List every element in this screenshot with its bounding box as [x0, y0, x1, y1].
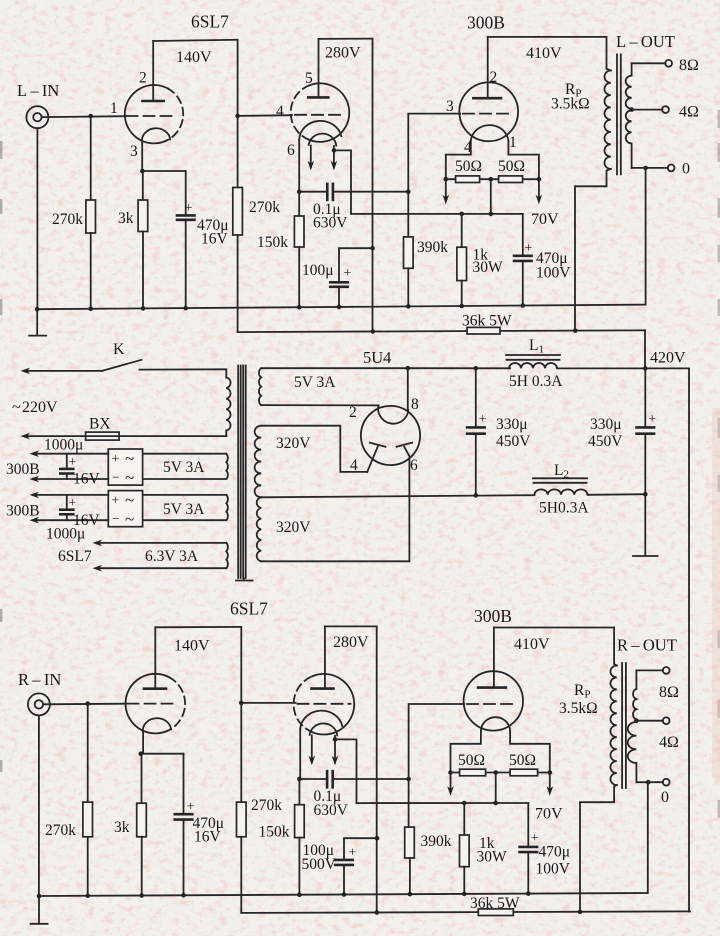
svg-text:2: 2	[349, 404, 357, 421]
node 300B grid node R	[406, 777, 411, 782]
svg-text:~: ~	[125, 491, 134, 510]
resistor R 270k plate-load R	[237, 802, 247, 837]
ground symbol R input	[38, 896, 40, 923]
svg-text:270k: 270k	[249, 199, 280, 216]
node 0 tap junction L	[643, 166, 648, 171]
wire cathode to bypass cap R	[141, 753, 184, 755]
wire 470u16V R to rail	[183, 820, 185, 896]
wire 70V node line L	[351, 213, 523, 215]
svg-text:3: 3	[446, 98, 454, 115]
svg-text:0: 0	[682, 161, 690, 178]
svg-text:L – OUT: L – OUT	[616, 32, 675, 51]
wire B2 minus output	[36, 519, 108, 521]
wire 100u to ground rail	[338, 287, 340, 307]
tube V1b grid (dashed)	[295, 114, 346, 116]
svg-text:5V 3A: 5V 3A	[163, 501, 205, 518]
wire cathode to bypass cap	[142, 170, 185, 172]
tube V1b 6SL7 L envelope	[309, 83, 349, 142]
svg-text:280V: 280V	[333, 634, 369, 651]
svg-text:3k: 3k	[118, 210, 134, 227]
ground symbol PSU	[644, 494, 646, 555]
svg-text:280V: 280V	[325, 45, 361, 62]
wire B+ rail after L1	[558, 367, 689, 369]
resistor R 270k grid L (wire)	[90, 116, 92, 200]
svg-text:+: +	[112, 493, 120, 508]
svg-text:4Ω: 4Ω	[679, 104, 699, 121]
svg-text:420V: 420V	[650, 350, 686, 367]
wire 0 tap L	[632, 167, 668, 169]
svg-text:5H 0.3A: 5H 0.3A	[509, 373, 563, 390]
node input junction	[88, 114, 93, 119]
wire 140V top rail R	[155, 626, 241, 628]
svg-text:8Ω: 8Ω	[659, 684, 679, 701]
transformer T-OPT-L core	[616, 54, 618, 174]
wire 3k to ground rail	[142, 232, 144, 309]
wire 270k to ground rail	[90, 233, 92, 309]
node 1k top R	[462, 801, 467, 806]
svg-text:−: −	[112, 470, 120, 485]
capacitor C 470u16V R plates	[175, 813, 193, 816]
svg-text:+: +	[479, 412, 487, 427]
svg-text:450V: 450V	[496, 433, 531, 450]
node 4ohm tap R	[634, 718, 639, 723]
tube 5U4 anode pin4	[367, 447, 378, 472]
svg-text:0: 0	[661, 789, 669, 806]
wire filament supply arrow left L	[445, 179, 447, 200]
svg-text:100V: 100V	[536, 861, 571, 878]
node 300B grid node L	[406, 189, 411, 194]
svg-text:R – IN: R – IN	[18, 670, 61, 689]
wire 3k R to rail	[141, 837, 143, 896]
svg-text:+: +	[648, 412, 656, 427]
transformer T-OPT-L secondary upper	[631, 63, 633, 75]
svg-text:70V: 70V	[535, 806, 563, 823]
capacitor C 100u L plates	[330, 281, 348, 284]
tube 300B R grid (dashed)	[467, 703, 517, 705]
node 1k top L	[459, 212, 464, 217]
node 280V at 36k line L	[371, 329, 376, 334]
wire 300B L filament left leg	[446, 141, 471, 179]
wire 36k line L	[238, 330, 645, 332]
capacitor C 330u-1 (wires)	[475, 368, 477, 427]
terminal 0 L	[668, 165, 675, 172]
svg-text:1: 1	[509, 134, 517, 151]
wire 470u100V R to rail	[527, 852, 529, 893]
resistor R 50ohm right R	[510, 769, 537, 776]
wire 300B anode to OPT primary L	[488, 36, 607, 38]
wire 470u100V to ground rail	[522, 261, 524, 306]
wire 4ohm tap L	[632, 109, 663, 111]
resistor R 50ohm left R	[460, 769, 486, 776]
wire secondary 0 to ground rail R	[647, 782, 649, 893]
node 50ohm center L	[489, 177, 494, 182]
fuse BX	[86, 432, 120, 440]
svg-text:330μ: 330μ	[590, 416, 622, 433]
resistor R 3k cathode R	[137, 803, 147, 837]
wire mains line 1 to primary	[140, 368, 227, 370]
wire 70V node line R	[357, 802, 529, 804]
svg-text:4: 4	[276, 103, 284, 120]
resistor R 50ohm left L	[456, 176, 480, 183]
tube V1a 6SL7 L envelope	[125, 85, 168, 143]
transformer T-PWR primary 220V	[225, 371, 227, 378]
tube V2a anode plate	[144, 687, 166, 690]
node 0 tap junction R	[646, 780, 651, 785]
wire cathode node to coupling cap R	[299, 778, 327, 780]
node 330u-1 top	[474, 366, 479, 371]
resistor R 390k R (wire)	[408, 779, 410, 827]
svg-text:390k: 390k	[417, 239, 448, 256]
wire 280V box top R	[325, 625, 377, 627]
wire 300B R filament right leg	[510, 731, 550, 772]
svg-text:270k: 270k	[251, 797, 282, 814]
svg-text:470μ: 470μ	[539, 844, 571, 861]
node 50ohm line left L	[444, 177, 449, 182]
wire V2a cathode lead	[142, 731, 144, 754]
bridge rectifier B2 box	[108, 491, 142, 527]
resistor R 150k R	[295, 805, 305, 838]
wire coupling cap to 300B grid node	[333, 191, 408, 193]
tube 5U4 envelope	[361, 406, 420, 465]
wire 270k grid R to rail	[87, 837, 89, 896]
wire 4ohm tap R	[636, 720, 663, 722]
svg-text:630V: 630V	[313, 215, 348, 232]
choke L2 coil	[535, 489, 588, 494]
resistor R 1k30W R (wire)	[463, 803, 465, 835]
wire 50ohm hum line L	[446, 178, 539, 180]
node ground rail left end R	[37, 894, 42, 899]
wire B2 plus output	[36, 494, 108, 496]
svg-text:+: +	[187, 800, 195, 815]
capacitor C 470u16V L plates	[177, 214, 195, 217]
resistor R 270k grid R	[83, 802, 93, 837]
ground symbol transformer core	[243, 578, 245, 580]
wire 390k to ground rail	[407, 268, 409, 306]
wire 300B grid riser L	[408, 114, 460, 192]
wire cathode node to coupling cap	[299, 191, 327, 193]
svg-text:~ 220V: ~ 220V	[12, 399, 58, 416]
svg-text:300B: 300B	[467, 13, 505, 33]
capacitor C 0.1u630V L plates	[326, 184, 329, 200]
tube V2a 6SL7 R envelope	[125, 674, 169, 734]
svg-text:320V: 320V	[276, 435, 311, 452]
wire 280V supply vertical L	[372, 39, 374, 332]
wire 270k plate-load R to 280V line	[240, 837, 242, 913]
svg-text:6SL7: 6SL7	[58, 548, 92, 565]
tube 300B L filament arc	[471, 125, 509, 141]
wire heater leg left V1b	[310, 146, 312, 168]
tube V2b heater arc	[310, 723, 338, 735]
wire 0 tap R	[636, 781, 663, 783]
svg-text:6SL7: 6SL7	[230, 599, 268, 619]
svg-text:3.5kΩ: 3.5kΩ	[559, 700, 598, 717]
wire coupling to V2 grid	[238, 114, 292, 117]
wire V2a anode lead	[154, 627, 156, 688]
node V2b cathode / coupling junction R	[297, 777, 302, 782]
node OPT-R primary return	[578, 910, 583, 915]
svg-text:5H0.3A: 5H0.3A	[539, 500, 589, 517]
resistor R 3k cathode L (wire up)	[142, 171, 144, 200]
wire jack ground drop R	[38, 715, 40, 896]
resistor R 270k grid R (wire)	[87, 704, 89, 803]
capacitor C 1000u16V b plates	[60, 508, 73, 511]
wire 280V box top L	[319, 38, 373, 40]
wire 300B L filament right leg	[508, 141, 539, 179]
node B+ takeoff at pin8	[406, 366, 411, 371]
resistor R 3k cathode L	[138, 200, 148, 232]
wire 1k R to rail	[463, 867, 465, 894]
svg-text:K: K	[113, 341, 125, 358]
tube V1b anode plate	[308, 96, 328, 99]
wire 420V down right edge	[688, 368, 690, 911]
wire 300B L anode lead	[487, 37, 489, 98]
wire 150k R to rail	[298, 838, 300, 895]
wire B+ rail from 5U4	[408, 367, 510, 369]
node V1a cathode junction	[140, 169, 145, 174]
bridge rectifier B1 box	[108, 449, 142, 485]
wire heater tap to 70V line	[334, 150, 351, 214]
svg-text:−: −	[112, 511, 120, 526]
wire mains line 2	[27, 435, 227, 437]
svg-text:320V: 320V	[276, 519, 311, 536]
node heater bias tap	[332, 148, 337, 153]
tube 5U4 anode pin6	[404, 447, 409, 562]
wire 50ohm center to 70V node	[490, 179, 492, 214]
svg-text:500V: 500V	[302, 856, 337, 873]
wire 280V supply vertical R	[376, 626, 378, 912]
resistor R 270k plate-load R (wire)	[240, 627, 242, 802]
node V1b cathode / coupling junction	[297, 189, 302, 194]
node 50ohm line left R	[448, 770, 453, 775]
svg-text:5V 3A: 5V 3A	[163, 459, 205, 476]
svg-text:6SL7: 6SL7	[191, 12, 229, 32]
capacitor C 470u100V R plates	[520, 846, 538, 849]
svg-text:6: 6	[287, 142, 295, 159]
capacitor C 1000u16V a plates	[60, 468, 73, 471]
node OPT-L primary return	[573, 328, 578, 333]
svg-text:16V: 16V	[194, 829, 222, 846]
capacitor C 330u-1 plates	[467, 426, 485, 429]
svg-text:5V 3A: 5V 3A	[294, 374, 336, 391]
svg-text:16V: 16V	[201, 231, 229, 248]
node 50ohm line right R	[548, 770, 553, 775]
svg-text:8Ω: 8Ω	[679, 57, 699, 74]
resistor R 270k plate-load L (wire from rail)	[237, 40, 239, 188]
capacitor C 1000u16V a (wires)	[66, 454, 68, 469]
wire B1 minus output	[36, 478, 108, 480]
winding 5V3A-a (left)	[143, 453, 227, 455]
resistor R 1k30W L (wire)	[461, 214, 463, 247]
wire heater leg right V2b	[334, 736, 336, 763]
ground rail R channel	[39, 893, 648, 896]
wire filament supply arrow right R	[549, 773, 551, 792]
svg-text:390k: 390k	[421, 833, 452, 850]
node V1a anode / V2 grid junction	[235, 114, 240, 119]
tube V2b 6SL7 R envelope	[313, 674, 355, 735]
wire heater leg left V2b	[311, 735, 313, 762]
wire mains line 1	[27, 370, 102, 372]
svg-text:450V: 450V	[588, 433, 623, 450]
tube 300B L anode plate	[473, 97, 501, 100]
svg-text:+: +	[69, 454, 77, 469]
svg-text:50Ω: 50Ω	[498, 158, 525, 175]
tube 5U4 filament arc	[378, 407, 408, 424]
resistor R 150k L	[294, 216, 304, 247]
wire PSU return rail right	[588, 493, 645, 496]
svg-text:6.3V 3A: 6.3V 3A	[145, 548, 199, 565]
node V2a cathode junction R	[139, 751, 144, 756]
wire 8ohm tap L	[632, 62, 666, 64]
wire 36k line R	[241, 911, 690, 913]
wire 300B R anode to OPT primary	[494, 627, 614, 629]
wire 1k to ground rail	[461, 281, 463, 306]
svg-text:1000μ: 1000μ	[46, 526, 85, 543]
svg-text:16V: 16V	[73, 471, 101, 488]
tube 300B R anode plate	[478, 686, 506, 689]
svg-text:150k: 150k	[259, 824, 290, 841]
wire 270k plate-load to 280V line	[237, 235, 239, 332]
winding 320V upper	[255, 426, 262, 498]
node 100u R at 280V line	[375, 836, 380, 841]
input jack R-IN	[28, 693, 50, 715]
svg-text:~: ~	[125, 468, 134, 487]
svg-text:~: ~	[125, 510, 134, 529]
tube 300B R envelope	[464, 671, 523, 730]
svg-text:+: +	[69, 495, 77, 510]
ground rail L channel	[37, 305, 645, 310]
svg-text:BX: BX	[89, 416, 111, 433]
node 50ohm center R	[493, 770, 498, 775]
svg-text:+: +	[349, 846, 357, 861]
svg-text:100V: 100V	[536, 265, 571, 282]
node V2a anode / V2b grid junction R	[239, 701, 244, 706]
wire heater leg right V1b	[333, 146, 335, 168]
wire V1a cathode lead	[141, 141, 143, 171]
capacitor C 470u100V L plates	[514, 255, 532, 258]
wire 150k to ground rail	[298, 247, 300, 307]
node 330u-2 bottom	[643, 492, 648, 497]
wire 100u R to rail	[343, 865, 345, 895]
svg-text:3k: 3k	[114, 819, 130, 836]
svg-text:410V: 410V	[514, 636, 550, 653]
wire 300B R anode lead	[493, 628, 495, 688]
wire 36k line to 420V corner L	[644, 330, 646, 368]
wire 300B R filament left leg	[451, 731, 481, 772]
wire secondary 0 to ground rail L	[645, 168, 647, 305]
capacitor C 470u16V L (top wire)	[185, 171, 187, 215]
resistor R 390k R	[405, 827, 415, 858]
resistor R 50ohm right L	[499, 176, 523, 183]
transformer T-OPT-L secondary lower	[626, 110, 632, 143]
capacitor C 100u R plates	[335, 859, 353, 862]
terminal 8ohm L	[665, 60, 672, 67]
svg-text:30W: 30W	[477, 849, 508, 866]
svg-text:100μ: 100μ	[302, 262, 334, 279]
node 330u-1 bottom	[474, 493, 479, 498]
wire 300B grid riser R	[409, 704, 465, 779]
svg-text:+: +	[525, 241, 533, 256]
wire heater tap to 70V line R	[335, 739, 357, 803]
svg-text:36k 5W: 36k 5W	[470, 895, 520, 912]
svg-text:R – OUT: R – OUT	[617, 636, 677, 655]
wire 390k R to rail	[409, 858, 411, 894]
resistor R 36k5W L	[467, 327, 500, 334]
svg-text:2: 2	[139, 70, 147, 87]
winding 6.3V3A (left)	[99, 542, 226, 544]
svg-text:5U4: 5U4	[363, 348, 391, 367]
ground symbol L input	[36, 309, 38, 335]
choke L1 core	[506, 354, 560, 356]
tube V2a grid (dashed)	[128, 703, 175, 705]
capacitor C 330u-2 (wires)	[644, 368, 646, 427]
svg-text:50Ω: 50Ω	[455, 158, 482, 175]
capacitor C 1000u16V b (wires)	[66, 495, 68, 510]
wire coupling cap to 300B grid node R	[333, 778, 409, 780]
svg-text:300B: 300B	[6, 461, 40, 478]
svg-text:4Ω: 4Ω	[659, 734, 679, 751]
resistor R 390k L (wire)	[407, 192, 409, 237]
terminal 4ohm R	[663, 717, 670, 724]
svg-text:+: +	[185, 201, 193, 216]
choke L1 coil	[509, 363, 557, 368]
svg-text:300B: 300B	[474, 606, 512, 626]
svg-text:50Ω: 50Ω	[458, 752, 485, 769]
wire R-IN jack to V2a grid	[43, 703, 126, 706]
wire V2b cathode lead	[299, 730, 301, 779]
capacitor C 0.1u630V R plates	[326, 771, 329, 787]
winding 5V3A-b (left)	[143, 494, 227, 496]
svg-text:5: 5	[305, 70, 313, 87]
tube V2a cathode arc	[143, 718, 171, 731]
capacitor C 470u16V R (top wire)	[183, 754, 185, 815]
wire 5U4 pin8 lead	[407, 368, 409, 410]
tube V2b cathode arc	[300, 711, 342, 730]
winding 5V3A rectifier (right)	[259, 368, 261, 405]
svg-text:1: 1	[110, 100, 118, 117]
transformer T-OPT-L primary	[607, 37, 611, 71]
transformer T-OPT-R primary	[614, 628, 617, 666]
svg-text:630V: 630V	[314, 802, 349, 819]
svg-text:270k: 270k	[45, 822, 76, 839]
wire coupling to V2b grid R	[241, 702, 295, 704]
svg-text:3.5kΩ: 3.5kΩ	[551, 96, 590, 113]
resistor R 270k grid L	[86, 200, 96, 233]
resistor R 270k plate-load L	[233, 188, 243, 236]
transformer T-OPT-R secondary lower	[628, 722, 637, 763]
wire B1 plus output	[36, 453, 108, 455]
capacitor C 330u-2 plates	[637, 426, 655, 429]
tube V1a anode plate	[143, 100, 164, 103]
capacitor C 470u100V R (top wire)	[527, 803, 529, 847]
resistor R 36k5W R	[478, 909, 513, 916]
svg-text:+: +	[344, 266, 352, 281]
wire 50ohm hum line R	[451, 772, 550, 774]
wire filament supply arrow right L	[538, 179, 540, 200]
svg-text:140V: 140V	[174, 638, 210, 655]
scan artifacts left edge	[0, 141, 2, 772]
scan artifacts right edge	[717, 110, 720, 818]
switch K blade	[102, 360, 142, 371]
wire jack ground drop	[36, 128, 38, 309]
svg-text:150k: 150k	[257, 234, 288, 251]
wire V1a anode lead	[152, 41, 154, 101]
node ground rail left end	[35, 307, 40, 312]
transformer T-PWR core	[237, 366, 239, 579]
svg-text:36k 5W: 36k 5W	[462, 313, 512, 330]
tube 300B L grid (dashed)	[463, 113, 512, 115]
svg-text:300B: 300B	[6, 503, 40, 520]
node 50ohm line right L	[537, 177, 542, 182]
